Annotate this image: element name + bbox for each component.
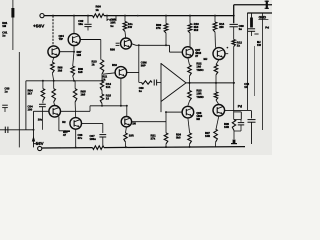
label MJ right: [257, 40, 261, 47]
label C09fb: [139, 86, 144, 93]
label Q7: [195, 48, 201, 58]
wire +rail left: [44, 15, 92, 17]
wire Q1 to mirror: [89, 106, 91, 112]
wire R05 stub: [74, 81, 76, 89]
wire chain mid: [101, 74, 103, 81]
fuse F1: [265, 1, 269, 10]
transistor Q0: [121, 117, 131, 127]
svg-text:R2: R2: [62, 120, 66, 124]
wire Q2 emitter: [52, 58, 53, 63]
wire R26 to Q10: [216, 100, 219, 105]
svg-text:1k5: 1k5: [81, 93, 86, 97]
label R21: [151, 134, 157, 141]
wire aux vertical: [254, 46, 256, 96]
wire R24 to rail: [189, 144, 191, 148]
label C0M: [141, 61, 148, 68]
wire top corner: [234, 4, 272, 6]
label R07: [128, 22, 133, 29]
capacitor C02b left: [2, 105, 8, 112]
wire Q5 collector right: [132, 44, 170, 46]
label R20: [129, 134, 134, 138]
wire diag bottom: [161, 83, 186, 102]
label R15: [106, 94, 112, 101]
wire Q7 emitter stub: [188, 58, 190, 65]
node rail-boot: [233, 15, 235, 17]
wire Q4 emitter b: [73, 76, 74, 81]
transistor Q4: [68, 34, 80, 46]
wire fb to bias: [139, 82, 161, 84]
resistor R30 series -rail: [93, 146, 105, 150]
wire -rail left: [42, 147, 93, 149]
svg-text:100u: 100u: [90, 137, 97, 141]
wire R03 to Q1: [54, 102, 55, 106]
node -rail b: [125, 146, 127, 148]
label C09: [239, 24, 245, 31]
label -56V: [33, 141, 43, 146]
resistor R02: [41, 89, 45, 101]
wire C04 down: [41, 107, 43, 130]
capacitor C10 zobel: [238, 120, 244, 132]
node -rail a: [75, 147, 77, 149]
transistor Q2: [48, 46, 60, 58]
wire Q4 collector right: [80, 39, 101, 41]
svg-text:1W: 1W: [257, 43, 261, 47]
wire R18 down: [189, 76, 191, 83]
transistor Q5: [121, 38, 132, 49]
wire Q7 base line: [170, 51, 183, 53]
resistor R27: [214, 129, 218, 142]
wire Q1 base line: [34, 110, 49, 112]
wire cap C11 tail: [251, 31, 253, 36]
svg-text:1k5: 1k5: [77, 53, 82, 57]
wire Q4 emitter down: [73, 46, 74, 67]
label R18: [196, 62, 203, 72]
wire miller vert: [138, 45, 140, 72]
wire C07 stub: [102, 123, 104, 133]
label 100 small: [38, 117, 43, 121]
wire bias to K: [165, 112, 167, 133]
svg-text:MJ: MJ: [204, 57, 208, 61]
svg-text:1k8: 1k8: [58, 69, 63, 73]
wire zobel corner: [234, 112, 241, 120]
wire speaker line: [247, 13, 249, 110]
wire R9 stub: [165, 16, 167, 24]
svg-text:1u: 1u: [5, 90, 8, 94]
wire rail to Q2: [52, 16, 54, 46]
svg-text:27: 27: [195, 54, 198, 58]
label C03a: [5, 87, 10, 94]
label R19: [196, 89, 203, 99]
wire bootstrap mid: [233, 27, 235, 40]
transistor Q9: [213, 48, 225, 60]
wire bootstrap top: [233, 5, 235, 24]
label C06: [78, 133, 83, 140]
wire out cap stub: [251, 110, 253, 118]
node rail-R10: [189, 15, 191, 17]
resistor R06 series rail: [93, 14, 105, 18]
capacitor C09 bootstrap: [230, 24, 238, 26]
node rail-L1: [106, 15, 108, 17]
label R14: [106, 82, 112, 89]
svg-text:18R: 18R: [129, 134, 134, 138]
svg-text:+56V: +56V: [33, 24, 45, 30]
transistor Q8: [182, 106, 194, 118]
svg-text:1M: 1M: [2, 24, 7, 28]
wire Q6 collector right: [127, 72, 139, 74]
wire R7 to Q5: [124, 32, 127, 39]
wire Q10 emitter right: [225, 109, 251, 111]
wire input line left: [18, 52, 20, 147]
wire Q6 emitter down: [120, 78, 122, 106]
resistor R03: [52, 89, 56, 102]
node q9dot: [227, 47, 229, 49]
resistor R11: [213, 22, 217, 32]
wire R7 stub: [124, 16, 126, 22]
node rail-R9: [165, 15, 167, 17]
label R28: [224, 122, 229, 129]
wire speaker return: [262, 13, 264, 130]
svg-text:1n: 1n: [139, 89, 142, 93]
label R4e: [78, 67, 83, 74]
label C12r: [244, 82, 249, 89]
wire input bottom: [0, 129, 26, 131]
resistor R09: [164, 24, 168, 34]
node chain-fb: [101, 80, 103, 82]
svg-text:47u: 47u: [78, 136, 83, 140]
wire rail to Q4: [73, 16, 75, 34]
resistor R15: [100, 94, 103, 104]
wire zobel tee: [234, 119, 241, 121]
wire R10 stub: [189, 16, 191, 24]
transistor Q7: [182, 47, 193, 58]
wire -rail right: [104, 147, 245, 148]
wire mirror line: [90, 105, 127, 107]
wire chain top: [101, 40, 102, 61]
node out-boot: [233, 82, 235, 84]
node fb-R2: [42, 80, 44, 82]
wire zobel bottom: [234, 131, 241, 140]
resistor R19: [188, 91, 192, 102]
wire diag top: [161, 64, 186, 83]
inductor L1: [107, 16, 116, 21]
label Q8: [196, 111, 202, 121]
capacitor C05 dashes: [116, 43, 120, 45]
label R pre: [77, 50, 82, 57]
wire bias vertical: [160, 63, 162, 112]
wire R26 top: [215, 83, 217, 92]
label R01 input: [2, 21, 8, 28]
node rail-R11: [214, 15, 216, 17]
node fb-Q2e: [53, 80, 55, 82]
resistor R21: [164, 133, 168, 144]
svg-text:1u: 1u: [110, 24, 114, 28]
resistor R25: [214, 65, 218, 75]
label R13: [92, 60, 98, 67]
node input-cap: [33, 129, 35, 131]
cap C11 minus tick: [254, 33, 258, 35]
terminal +56V: [40, 14, 44, 18]
node -rail d: [189, 146, 191, 148]
svg-text:100: 100: [28, 108, 33, 112]
wire Q1 emitter down: [59, 117, 66, 131]
wire Q8 base line: [166, 111, 182, 113]
ground zobel: [231, 140, 237, 144]
wire R19 top: [189, 83, 191, 91]
capacitor C02: [84, 24, 91, 26]
svg-text:1W: 1W: [128, 25, 133, 29]
node rail-miller: [137, 15, 139, 17]
label R09: [156, 23, 162, 30]
wire feedback left: [25, 81, 27, 130]
svg-text:2k7: 2k7: [28, 92, 33, 96]
capacitor C12: [248, 120, 256, 123]
node -rail c: [165, 146, 167, 148]
label C04: [28, 105, 34, 112]
node vbias-R9: [165, 44, 167, 46]
wire Q9 emitter stub: [216, 60, 219, 65]
label R12: [237, 41, 243, 48]
wire Q10 collector down: [216, 116, 219, 129]
label Q2: [59, 34, 65, 41]
label Q9 left: [204, 57, 208, 61]
wire Q3 collector right: [82, 122, 103, 124]
transistor Q1: [49, 106, 61, 118]
svg-text:1k: 1k: [96, 8, 100, 12]
label +56V: [33, 24, 45, 30]
svg-text:3k0: 3k0: [176, 136, 181, 140]
svg-text:1u: 1u: [2, 34, 6, 38]
label R11e: [103, 75, 108, 82]
wire cap stub: [87, 16, 89, 24]
label R24: [176, 133, 181, 140]
node out-R18: [189, 82, 191, 84]
resistor R10: [188, 24, 192, 34]
capacitor C03 input: [5, 127, 8, 133]
svg-text:27k: 27k: [156, 26, 161, 30]
svg-text:R08: R08: [110, 48, 115, 52]
resistor R26: [214, 92, 218, 100]
emitter blob Q3: [64, 130, 70, 132]
svg-text:1u: 1u: [239, 27, 243, 31]
svg-text:27k: 27k: [151, 137, 156, 141]
node mirror-L: [101, 105, 103, 107]
wire R03 stub: [53, 81, 55, 89]
wire output line: [186, 82, 235, 84]
arrow input feed: [32, 136, 35, 142]
svg-text:10R: 10R: [224, 125, 229, 129]
resistor R14: [100, 81, 103, 91]
node Q8base: [165, 111, 167, 113]
svg-text:TN5C: TN5C: [196, 68, 203, 72]
wire Q9 emitter right: [225, 53, 228, 55]
node rail-R7: [124, 15, 126, 17]
wire Q6 base left: [103, 73, 115, 74]
wire R21 to rail: [165, 144, 167, 148]
wire R11 stub: [214, 16, 216, 22]
resistor R18: [188, 65, 192, 76]
resistor R07: [123, 22, 127, 32]
label L1: [110, 17, 116, 28]
svg-text:Pd: Pd: [265, 26, 269, 30]
wire chain bottom: [101, 104, 103, 106]
capacitor C04: [39, 101, 46, 107]
node mirror-K: [126, 105, 128, 107]
label R11: [219, 22, 224, 29]
transistor Q10: [213, 105, 225, 117]
wire input feed: [33, 111, 35, 147]
wire vbias corner: [169, 45, 171, 52]
label R05: [81, 90, 87, 97]
terminal -56V: [38, 146, 42, 150]
resistor R28 zobel: [232, 120, 235, 131]
wire Q0 collector right: [132, 121, 166, 123]
wire miller down: [138, 73, 140, 83]
label R27: [205, 131, 210, 138]
resistor R24: [188, 133, 192, 144]
node out-R25: [215, 82, 217, 84]
wire Q0 top: [126, 106, 128, 117]
capacitor C08 fb: [154, 80, 156, 86]
wire R20 to rail: [125, 142, 127, 147]
label R02: [28, 89, 34, 96]
svg-text:1R: 1R: [244, 85, 247, 89]
wire gnd line: [247, 12, 272, 14]
svg-text:Pd: Pd: [238, 105, 242, 109]
label R2e: [58, 66, 63, 73]
svg-text:10u: 10u: [38, 117, 43, 121]
node Q4e join: [73, 51, 75, 53]
svg-text:47: 47: [63, 133, 66, 137]
svg-text:TN5D: TN5D: [196, 95, 203, 99]
wire Q1 collector right: [61, 110, 91, 112]
wire input bottom2: [26, 129, 34, 131]
wire Q3 emitter: [75, 129, 77, 147]
wire out cap down: [251, 122, 253, 144]
svg-text:−56V: −56V: [33, 141, 43, 146]
label Q0 right: [132, 122, 135, 126]
label Pd: [265, 26, 269, 30]
svg-text:R10: R10: [112, 63, 117, 67]
label R10: [194, 22, 199, 32]
wire Q0 emitter: [125, 127, 128, 133]
svg-text:1k5: 1k5: [78, 70, 83, 74]
label Q6: [112, 63, 117, 67]
wire Q2 emitter b: [52, 73, 53, 81]
label Q1e: [62, 120, 66, 124]
wire bootstrap down: [233, 47, 235, 83]
svg-text:30P: 30P: [141, 64, 146, 68]
label R06: [96, 5, 102, 12]
wire R10 down: [189, 33, 191, 47]
wire cap stub2: [87, 27, 89, 31]
svg-text:10R: 10R: [205, 134, 210, 138]
svg-text:2N: 2N: [132, 122, 135, 126]
wire chain mid2: [101, 91, 103, 95]
capacitor C07: [99, 135, 106, 148]
wire R19 to Q8: [188, 101, 190, 106]
wire R9 down: [165, 33, 167, 45]
label R08b: [110, 48, 115, 52]
wire R02 stub: [42, 81, 44, 89]
capacitor C11 electrolytic: [248, 18, 255, 32]
wire input line top-left: [12, 0, 14, 50]
svg-text:10u: 10u: [78, 22, 83, 26]
resistor R4e: [71, 66, 75, 76]
wire feedback top: [26, 80, 102, 82]
svg-text:1k1: 1k1: [106, 85, 111, 89]
svg-text:M2: M2: [196, 117, 200, 121]
node fb-Q4e: [73, 80, 75, 82]
wire R05 to Q3: [74, 102, 77, 118]
resistor R2e: [51, 62, 55, 73]
resistor R20: [124, 133, 127, 142]
wire Q8 collector down: [188, 118, 190, 133]
wire R11 to Q9: [214, 32, 217, 48]
node rail-C2: [87, 15, 89, 17]
label C02: [78, 19, 84, 26]
svg-text:TIP: TIP: [59, 37, 63, 41]
node mirror-E: [120, 105, 122, 107]
resistor R05: [73, 89, 77, 102]
paper background: [0, 0, 272, 155]
transistor Q3: [70, 118, 82, 130]
svg-text:2k2: 2k2: [194, 28, 199, 32]
wire gnd cap stub: [251, 13, 253, 18]
wire zobel stub: [233, 83, 235, 120]
svg-text:1k: 1k: [237, 44, 241, 48]
node rail-Q2: [52, 15, 54, 17]
wire R25 down: [215, 75, 217, 83]
node miller top: [138, 44, 140, 46]
svg-text:220: 220: [219, 25, 224, 29]
resistor R16 fb: [142, 81, 153, 84]
label Q3: [63, 130, 68, 137]
resistor R13: [100, 60, 104, 74]
input connector blob: [11, 8, 14, 18]
label C07: [90, 134, 97, 141]
resistor R12 bootstrap: [232, 40, 235, 47]
wire Q2 base: [60, 51, 74, 53]
wire R27 to rail: [215, 142, 217, 147]
node rail-Q4: [73, 15, 75, 17]
label P right: [238, 105, 242, 109]
label C01 input: [2, 31, 8, 38]
svg-text:1k: 1k: [92, 63, 96, 67]
wire +rail right: [104, 15, 234, 17]
label GND: [258, 16, 268, 20]
transistor Q6: [115, 67, 127, 79]
svg-text:18: 18: [106, 97, 110, 101]
